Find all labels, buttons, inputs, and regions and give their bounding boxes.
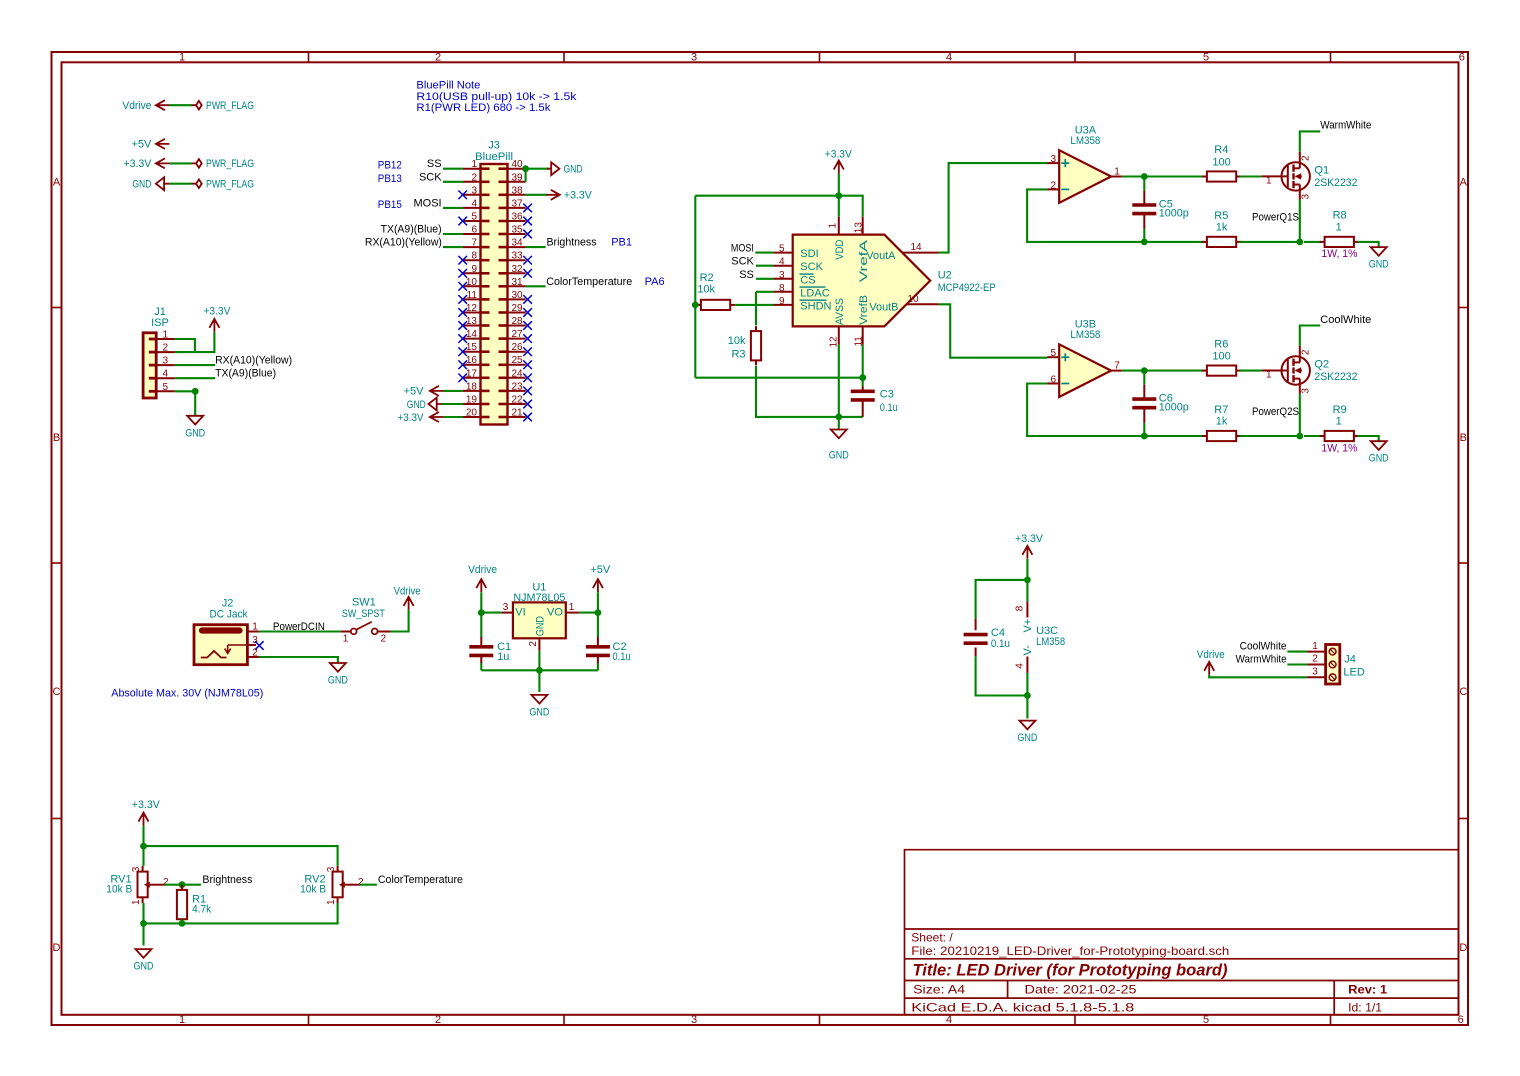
no-connect X J3 pin 27 — [523, 334, 532, 343]
svg-text:NJM78L05: NJM78L05 — [513, 592, 565, 604]
capacitor C5 1000p — [1143, 177, 1145, 191]
J1 pin 1 — [156, 338, 175, 340]
svg-text:5: 5 — [779, 244, 785, 255]
svg-text:1k: 1k — [1216, 416, 1228, 428]
wire VoutB to U3B plus input — [939, 304, 1048, 357]
U3A pin 2 inverting input — [1047, 188, 1059, 190]
svg-text:4: 4 — [779, 257, 785, 268]
svg-text:1: 1 — [179, 1014, 185, 1026]
wire C4 branch top — [976, 580, 1028, 619]
J3 pin 30 — [508, 298, 526, 300]
wire J2 pin 1 to SW1 — [259, 630, 341, 632]
svg-text:R8: R8 — [1333, 210, 1347, 222]
svg-text:6: 6 — [1458, 1014, 1464, 1026]
svg-text:27: 27 — [512, 329, 524, 340]
svg-text:GND: GND — [132, 179, 151, 191]
svg-text:+3.3V: +3.3V — [123, 158, 152, 170]
svg-text:VoutA: VoutA — [866, 250, 896, 262]
wire U3A output to R_top — [1122, 175, 1204, 177]
junction Vdrive / C1 — [478, 609, 485, 616]
svg-text:26: 26 — [512, 342, 524, 353]
svg-text:CoolWhite: CoolWhite — [1240, 641, 1287, 653]
svg-text:+5V: +5V — [590, 564, 611, 576]
svg-text:1: 1 — [343, 634, 349, 645]
J3 pin 36 — [508, 220, 526, 222]
svg-text:GND: GND — [564, 164, 583, 176]
svg-text:File: 20210219_LED-Driver_for-: File: 20210219_LED-Driver_for-Prototypin… — [911, 944, 1229, 958]
label TX(A9)(Blue) at J3 pin 6 — [443, 233, 463, 235]
svg-text:1: 1 — [1114, 167, 1120, 178]
svg-text:2: 2 — [1300, 155, 1311, 161]
wire U3B output to R_top — [1122, 370, 1204, 372]
J1 pin 5 — [156, 390, 175, 392]
svg-text:SDI: SDI — [800, 248, 818, 260]
svg-text:8: 8 — [779, 283, 785, 294]
wire CoolWhite to J4 pin 1 — [1287, 651, 1307, 653]
junction C6 bottom on feedback — [1141, 433, 1148, 440]
frame row ticks left — [52, 307, 62, 309]
svg-text:1: 1 — [1266, 370, 1272, 381]
no-connect X J3 pin 3 — [458, 191, 467, 200]
svg-text:LM358: LM358 — [1070, 135, 1100, 147]
svg-text:3: 3 — [691, 52, 697, 64]
J3 pin 12 — [463, 312, 481, 314]
svg-text:10: 10 — [466, 277, 478, 288]
wire R6 to Q2 gate — [1240, 370, 1262, 372]
no-connect X J3 pin 9 — [458, 269, 467, 278]
svg-text:CoolWhite: CoolWhite — [1320, 314, 1371, 326]
svg-text:+3.3V: +3.3V — [564, 190, 593, 202]
U2 pin 10 VoutB — [906, 303, 938, 305]
svg-text:1W, 1%: 1W, 1% — [1321, 442, 1357, 454]
no-connect X J3 pin 16 — [458, 360, 467, 369]
J4 pin 1 screw terminal — [1329, 648, 1336, 655]
wire Q1 drain to WarmWhite — [1300, 131, 1321, 151]
label MOSI at J3 pin 4 — [443, 207, 463, 209]
svg-text:VI: VI — [515, 606, 525, 618]
svg-text:7: 7 — [471, 238, 477, 249]
svg-text:CS: CS — [800, 274, 815, 286]
svg-text:36: 36 — [512, 212, 524, 223]
svg-text:R1(PWR LED) 680 -> 1.5k: R1(PWR LED) 680 -> 1.5k — [416, 102, 551, 114]
J3 pin 27 — [508, 338, 526, 340]
svg-text:SS: SS — [739, 269, 754, 281]
svg-text:8: 8 — [1014, 605, 1025, 611]
title block outline — [905, 850, 1459, 1015]
svg-text:PowerQ1S: PowerQ1S — [1252, 212, 1299, 224]
J1 pin 3 — [156, 364, 175, 366]
wire J3 pin 38 to +3.3V — [526, 194, 547, 196]
svg-text:30: 30 — [512, 290, 524, 301]
svg-text:3: 3 — [471, 185, 477, 196]
svg-text:ColorTemperature: ColorTemperature — [546, 276, 632, 288]
no-connect X J3 pin 35 — [523, 230, 532, 239]
U2 pin 9 SHDN — [773, 304, 792, 306]
junction R1 bottom — [179, 920, 186, 927]
no-connect X J3 pin 37 — [523, 204, 532, 213]
power port Vdrive at SW1 — [404, 597, 414, 610]
label SCK at J3 pin 2 — [443, 181, 463, 183]
svg-text:PB13: PB13 — [378, 173, 402, 185]
svg-text:22: 22 — [512, 395, 524, 406]
svg-text:4: 4 — [946, 1014, 952, 1026]
no-connect X J2 pin 3 — [255, 641, 264, 650]
ground rail RV1-RV2 — [144, 903, 338, 923]
ground symbol at U3C — [1019, 721, 1035, 730]
svg-text:Title: LED Driver (for Prototy: Title: LED Driver (for Prototyping board… — [913, 961, 1228, 980]
svg-text:2: 2 — [1312, 654, 1318, 665]
svg-text:2: 2 — [1300, 349, 1311, 355]
J3 pin 38 — [508, 194, 526, 196]
svg-text:SCK: SCK — [419, 171, 442, 183]
wire R2 to SHDN — [735, 304, 773, 306]
svg-text:1000p: 1000p — [1159, 402, 1189, 414]
J4 pin 2 screw terminal — [1329, 661, 1336, 668]
wire J3 pin 31 to ColorTemperature label — [526, 285, 546, 287]
J3 pin 39 — [508, 181, 526, 183]
wire +3.3V rail to RV2 — [144, 846, 338, 866]
svg-text:DC Jack: DC Jack — [210, 609, 248, 621]
wire R4 to Q1 gate — [1240, 175, 1262, 177]
J3 pin 15 — [463, 351, 481, 353]
wire Q1 source down to sense node — [1299, 200, 1301, 242]
svg-text:1: 1 — [1266, 175, 1272, 186]
svg-text:2: 2 — [435, 52, 441, 64]
svg-text:B: B — [1460, 432, 1467, 444]
J3 pin 10 — [463, 285, 481, 287]
no-connect X J3 pin 36 — [523, 217, 532, 226]
svg-text:32: 32 — [512, 264, 524, 275]
op-amp U3A body — [1059, 150, 1111, 203]
J3 pin 32 — [508, 272, 526, 274]
svg-text:2: 2 — [528, 641, 539, 647]
wire R7 to Q2 source node — [1240, 435, 1300, 437]
no-connect X J3 pin 8 — [458, 256, 467, 265]
svg-text:10k: 10k — [728, 335, 746, 347]
svg-text:1: 1 — [326, 899, 337, 905]
svg-text:1u: 1u — [497, 651, 509, 663]
svg-text:1: 1 — [179, 52, 185, 64]
J2 switch contact arrow — [225, 645, 231, 654]
no-connect X J3 pin 33 — [523, 256, 532, 265]
junction Q2 source node — [1296, 433, 1303, 440]
power port +3.3V at U3C — [1022, 546, 1032, 559]
U2 pin 11 VrefB — [862, 326, 864, 344]
svg-text:10: 10 — [907, 294, 919, 305]
junction U1 ground rail — [536, 667, 543, 674]
svg-text:Vdrive: Vdrive — [394, 585, 421, 597]
svg-text:PB1: PB1 — [611, 237, 632, 249]
svg-text:6: 6 — [1050, 375, 1056, 386]
svg-text:R5: R5 — [1214, 210, 1228, 222]
junction C5 bottom on feedback — [1141, 239, 1148, 246]
svg-text:R4: R4 — [1214, 144, 1228, 156]
svg-text:MCP4922-EP: MCP4922-EP — [938, 282, 996, 294]
wire J3 pin 40 down to pin 39 — [525, 169, 527, 182]
svg-text:LM358: LM358 — [1036, 636, 1065, 648]
no-connect X J3 pin 24 — [523, 374, 532, 383]
U2 pin 13 VrefA — [862, 217, 864, 235]
svg-text:33: 33 — [512, 251, 524, 262]
J3 pin 19 — [463, 403, 481, 405]
svg-text:2: 2 — [163, 877, 169, 888]
junction U3C ground node — [1024, 692, 1031, 699]
svg-text:5: 5 — [1050, 348, 1056, 359]
svg-text:R3: R3 — [731, 349, 745, 361]
potentiometer RV1 10k B body — [138, 872, 148, 898]
wire U3C V- to ground rail — [1026, 673, 1028, 719]
wire +3.3V to PWR_FLAG — [169, 162, 191, 164]
U3A pin 1 output — [1111, 176, 1122, 178]
wire +5V to J3 pin 18 — [443, 390, 462, 392]
no-connect X J3 pin 12 — [458, 308, 467, 317]
U2 pin 14 VoutA — [902, 252, 938, 254]
svg-text:2SK2232: 2SK2232 — [1314, 177, 1357, 189]
J3 pin 23 — [508, 390, 526, 392]
svg-text:1: 1 — [252, 622, 258, 633]
power port +3.3V at J3 pin 38 — [546, 190, 560, 200]
J3 pin 26 — [508, 351, 526, 353]
resistor R8 1 (sense) — [1304, 241, 1321, 243]
svg-text:15: 15 — [466, 342, 478, 353]
svg-text:WarmWhite: WarmWhite — [1236, 653, 1287, 665]
svg-text:Id: 1/1: Id: 1/1 — [1348, 1000, 1382, 1014]
svg-text:PA6: PA6 — [645, 276, 665, 288]
J3 pin 16 — [463, 364, 481, 366]
power flag PWR_FLAG (+3.3V) — [192, 159, 202, 168]
junction RV1 wiper / R1 — [179, 881, 186, 888]
J3 pin 37 — [508, 207, 526, 209]
svg-text:0.1u: 0.1u — [880, 402, 898, 414]
J3 pin 1 — [463, 168, 481, 170]
label MOSI at U2 SDI — [755, 252, 773, 254]
connector J1 ISP body — [143, 333, 156, 398]
svg-text:2: 2 — [381, 634, 387, 645]
svg-text:J3: J3 — [488, 140, 500, 152]
svg-text:Size: A4: Size: A4 — [913, 983, 965, 997]
frame column ticks top — [308, 52, 310, 62]
J1 pin 2 — [156, 351, 175, 353]
no-connect X J3 pin 10 — [458, 282, 467, 291]
svg-text:SHDN: SHDN — [800, 300, 831, 312]
svg-text:R9: R9 — [1333, 404, 1347, 416]
svg-text:J4: J4 — [1344, 653, 1356, 665]
svg-text:4: 4 — [946, 52, 952, 64]
svg-text:19: 19 — [466, 395, 478, 406]
label SCK at U2 SCK — [756, 265, 773, 267]
svg-text:WarmWhite: WarmWhite — [1320, 120, 1371, 132]
resistor R3 10k — [755, 326, 757, 331]
wire J2 pin 2 to GND — [259, 657, 338, 663]
wire left rail down from +3.3V to feedback row — [694, 196, 696, 378]
J3 pin 29 — [508, 312, 526, 314]
no-connect X J3 pin 26 — [523, 347, 532, 356]
svg-text:ISP: ISP — [151, 317, 169, 329]
no-connect X J3 pin 28 — [523, 321, 532, 330]
U2 pin 1 VDD — [838, 217, 840, 235]
resistor R1 4.7k — [181, 885, 183, 890]
svg-text:GND: GND — [328, 674, 348, 686]
svg-text:GND: GND — [1017, 732, 1037, 744]
svg-text:Rev: 1: Rev: 1 — [1348, 983, 1387, 997]
J3 pin 6 — [463, 233, 481, 235]
power port GND at J3 pin 40 — [547, 162, 560, 175]
power port Vdrive at J4 — [1204, 662, 1214, 675]
svg-text:GND: GND — [185, 428, 205, 440]
no-connect X J3 pin 29 — [523, 308, 532, 317]
svg-text:6: 6 — [1459, 52, 1465, 64]
capacitor C4 0.1u — [975, 619, 977, 630]
no-connect X J3 pin 32 — [523, 269, 532, 278]
svg-text:38: 38 — [512, 185, 524, 196]
svg-text:GND: GND — [1369, 453, 1389, 465]
svg-text:23: 23 — [512, 381, 524, 392]
svg-text:9: 9 — [471, 264, 477, 275]
J3 pin 40 — [508, 168, 526, 170]
svg-text:1: 1 — [569, 602, 575, 613]
svg-text:3: 3 — [1300, 388, 1311, 394]
wire R5 to Q1 source node — [1240, 241, 1300, 243]
wire GND to PWR_FLAG — [169, 183, 191, 185]
wire VoutA to U3A plus input — [939, 163, 1048, 253]
wire J1 pin 3 to RX label — [175, 364, 215, 366]
J2 pin 2 — [247, 656, 259, 658]
wire LDAC to R3 top — [756, 291, 773, 293]
wire +3.3V down to U3C V+ — [1026, 559, 1028, 602]
J3 pin 17 — [463, 377, 481, 379]
svg-text:0.1u: 0.1u — [991, 638, 1010, 650]
svg-text:A: A — [1460, 177, 1468, 189]
junction at J3 pin 40 — [522, 165, 529, 172]
U1 pin 3 VI — [502, 612, 513, 614]
U2 pin 12 AVSS — [838, 326, 840, 344]
svg-text:RX(A10)(Yellow): RX(A10)(Yellow) — [215, 354, 292, 366]
J4 pin 3 screw terminal — [1329, 674, 1336, 681]
svg-text:3: 3 — [503, 602, 509, 613]
svg-text:5: 5 — [162, 382, 168, 393]
J3 pin 33 — [508, 259, 526, 261]
connector J4 LED body — [1326, 645, 1340, 685]
svg-text:9: 9 — [779, 296, 785, 307]
J3 pin 11 — [463, 298, 481, 300]
svg-text:31: 31 — [512, 277, 524, 288]
resistor R4 100 — [1202, 176, 1207, 178]
wire Q2 source down to sense node — [1299, 394, 1301, 436]
power port +3.3V at J1 — [209, 319, 219, 332]
wire RV1 wiper to Brightness — [164, 884, 201, 886]
svg-text:SW_SPST: SW_SPST — [342, 608, 385, 620]
svg-text:PWR_FLAG: PWR_FLAG — [206, 179, 254, 191]
wire WarmWhite to J4 pin 2 — [1287, 663, 1307, 665]
svg-text:V-: V- — [1022, 645, 1034, 656]
U2 pin 4 SCK — [773, 265, 792, 267]
svg-text:3: 3 — [131, 866, 142, 872]
U1 pin 1 VO — [566, 612, 579, 614]
svg-text:PWR_FLAG: PWR_FLAG — [206, 100, 254, 112]
capacitor C6 1000p — [1143, 371, 1145, 385]
svg-text:11: 11 — [467, 290, 478, 301]
junction +3.3V rail at VDD — [835, 192, 842, 199]
svg-text:Absolute Max. 30V (NJM78L05): Absolute Max. 30V (NJM78L05) — [111, 687, 263, 699]
no-connect X J3 pin 11 — [458, 295, 467, 304]
wire +3.3V down to RV1 — [142, 826, 144, 866]
wire J1 pin 2 to +3.3V — [175, 332, 215, 352]
svg-text:+5V: +5V — [404, 386, 425, 398]
J3 pin 34 — [508, 246, 526, 248]
svg-text:SS: SS — [427, 158, 442, 170]
no-connect X J3 pin 21 — [523, 413, 532, 422]
wire Vdrive down to U1 VI — [481, 592, 501, 612]
J2 barrel sleeve bar — [202, 627, 240, 633]
svg-text:16: 16 — [466, 355, 478, 366]
svg-text:39: 39 — [512, 172, 524, 183]
svg-text:SCK: SCK — [731, 256, 754, 268]
svg-text:R10(USB pull-up) 10k -> 1.5k: R10(USB pull-up) 10k -> 1.5k — [416, 91, 577, 103]
U3B pin 6 inverting input — [1047, 383, 1059, 385]
svg-text:1: 1 — [1312, 641, 1318, 652]
svg-text:3: 3 — [779, 270, 785, 281]
svg-text:Q1: Q1 — [1314, 165, 1329, 177]
svg-text:C: C — [53, 686, 61, 698]
svg-text:13: 13 — [854, 222, 865, 234]
svg-text:VDD: VDD — [834, 240, 846, 260]
svg-text:3: 3 — [326, 866, 337, 872]
J1 pin 4 — [156, 377, 175, 379]
svg-text:D: D — [53, 942, 61, 954]
svg-text:0.1u: 0.1u — [613, 651, 631, 663]
svg-text:40: 40 — [512, 159, 524, 170]
U3A pin 3 non-inverting input — [1047, 162, 1059, 164]
U3B pin 5 non-inverting input — [1047, 356, 1059, 358]
svg-text:24: 24 — [512, 368, 524, 379]
svg-text:TX(A9)(Blue): TX(A9)(Blue) — [381, 224, 442, 236]
wire AVSS down through rail to GND — [838, 345, 840, 429]
junction U3B output node — [1141, 367, 1148, 374]
svg-text:1W, 1%: 1W, 1% — [1321, 248, 1357, 260]
ground symbol below U2 — [831, 430, 847, 439]
power port Vdrive at U1 — [476, 579, 486, 592]
svg-text:6: 6 — [471, 225, 477, 236]
svg-text:29: 29 — [512, 303, 524, 314]
J3 pin 5 — [463, 220, 481, 222]
wire U3B feedback from inverting input — [1027, 384, 1204, 437]
op-amp U3B body — [1059, 344, 1111, 397]
resistor R7 1k — [1202, 435, 1207, 437]
op U2 MCP4922-EP body — [793, 235, 931, 327]
wire SW1 pin 2 to Vdrive — [391, 610, 409, 632]
svg-text:LED: LED — [1343, 667, 1364, 679]
wire +3.3V down to VDD rail — [838, 174, 840, 217]
no-connect X J3 pin 30 — [523, 295, 532, 304]
svg-text:3: 3 — [162, 356, 168, 367]
svg-text:LDAC: LDAC — [800, 287, 829, 299]
wire GND to J3 pin 19 — [442, 403, 463, 405]
power port +3.3V above U2 — [834, 161, 844, 174]
wire +3.3V to J3 pin 20 — [443, 416, 462, 418]
svg-text:10k: 10k — [697, 284, 715, 296]
svg-text:AVSS: AVSS — [834, 298, 846, 325]
svg-text:3: 3 — [691, 1014, 697, 1026]
resistor R2 10k — [696, 304, 701, 306]
wire VrefB down to C3 — [862, 345, 864, 387]
svg-text:GND: GND — [529, 707, 549, 719]
resistor R5 1k — [1202, 241, 1207, 243]
svg-text:25: 25 — [512, 355, 524, 366]
no-connect X J3 pin 25 — [523, 360, 532, 369]
svg-text:3: 3 — [1300, 194, 1311, 200]
connector J2 DC Jack body — [194, 625, 247, 665]
svg-text:MOSI: MOSI — [731, 243, 754, 255]
